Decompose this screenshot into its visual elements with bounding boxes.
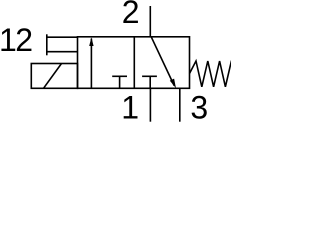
valve position divider bbox=[133, 37, 135, 89]
blocked port T (left square) bar bbox=[112, 75, 127, 77]
pilot top line bbox=[47, 36, 78, 38]
port 1 connection line bbox=[149, 88, 151, 121]
flow arrow 1->2 shaft (left square) bbox=[90, 39, 92, 89]
arrowhead up (1->2 flow) bbox=[89, 37, 93, 46]
svg-text:1: 1 bbox=[121, 90, 139, 125]
port 2 connection line bbox=[149, 6, 151, 37]
port 3 connection line bbox=[179, 88, 181, 121]
blocked port 1 T (right square) bar bbox=[142, 75, 157, 77]
solenoid coil slash bbox=[44, 64, 62, 89]
pilot end bar bbox=[46, 34, 48, 55]
svg-text:2: 2 bbox=[122, 0, 140, 30]
solenoid coil box bbox=[31, 64, 77, 89]
blocked port 1 T (right square) stem bbox=[149, 76, 151, 88]
flow path 2->3 diagonal (right square) bbox=[151, 37, 174, 86]
svg-text:3: 3 bbox=[190, 90, 208, 125]
return spring bbox=[190, 61, 232, 87]
blocked port T (left square) stem bbox=[119, 76, 121, 88]
3/2-way solenoid valve schematic bbox=[0, 0, 231, 124]
svg-text:12: 12 bbox=[0, 22, 32, 58]
pilot bottom line bbox=[47, 51, 78, 53]
valve body rectangle bbox=[78, 37, 190, 89]
arrowhead down-right (2->3 flow) bbox=[170, 79, 176, 89]
